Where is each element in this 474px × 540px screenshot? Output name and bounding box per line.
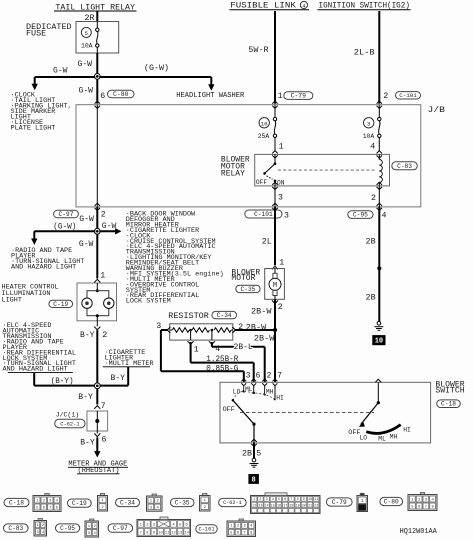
svg-text:16: 16 bbox=[277, 504, 281, 508]
svg-text:C-19: C-19 bbox=[72, 500, 87, 507]
svg-text:7: 7 bbox=[425, 505, 427, 509]
svg-text:C-80: C-80 bbox=[113, 91, 129, 98]
svg-text:SWITCH: SWITCH bbox=[435, 387, 464, 396]
connector C-95 pin 4 label bbox=[348, 211, 387, 221]
svg-text:7: 7 bbox=[243, 531, 245, 535]
svg-text:3: 3 bbox=[284, 211, 289, 220]
svg-text:12: 12 bbox=[252, 504, 256, 508]
load list cigarette lighter multi meter bbox=[103, 349, 154, 368]
svg-text:5: 5 bbox=[85, 31, 88, 37]
blower motor relay box bbox=[221, 154, 390, 186]
connector pinout C-95 bbox=[56, 519, 99, 537]
svg-text:22: 22 bbox=[314, 504, 318, 508]
svg-text:IGNITION SWITCH(IG2): IGNITION SWITCH(IG2) bbox=[319, 1, 410, 11]
svg-text:8: 8 bbox=[252, 476, 256, 484]
svg-text:12: 12 bbox=[171, 532, 175, 536]
svg-text:MOTOR: MOTOR bbox=[231, 274, 255, 283]
relay mechanical link dashed bbox=[278, 169, 375, 171]
svg-text:C-101: C-101 bbox=[199, 527, 215, 533]
svg-text:2: 2 bbox=[278, 303, 283, 312]
svg-text:7: 7 bbox=[290, 498, 292, 502]
J/B bottom edge connector arrows bbox=[95, 203, 382, 210]
svg-text:2: 2 bbox=[102, 331, 107, 340]
svg-text:C-101: C-101 bbox=[399, 92, 417, 99]
svg-text:7: 7 bbox=[49, 506, 51, 510]
svg-text:C-97: C-97 bbox=[113, 525, 128, 532]
svg-text:B-Y: B-Y bbox=[78, 393, 93, 402]
svg-text:PLATE LIGHT: PLATE LIGHT bbox=[11, 124, 56, 132]
J/B top edge connector arrows bbox=[95, 101, 382, 108]
svg-text:MH: MH bbox=[266, 389, 274, 396]
svg-text:9: 9 bbox=[303, 498, 305, 502]
svg-text:13: 13 bbox=[258, 504, 262, 508]
svg-text:3: 3 bbox=[278, 194, 283, 203]
joint connector J/C(1) C-62-1 bbox=[55, 411, 108, 431]
svg-text:5: 5 bbox=[278, 498, 280, 502]
svg-text:2L: 2L bbox=[262, 238, 272, 247]
svg-text:HEADLIGHT WASHER: HEADLIGHT WASHER bbox=[176, 92, 245, 100]
svg-text:16: 16 bbox=[261, 120, 268, 127]
svg-text:2: 2 bbox=[101, 211, 106, 220]
svg-text:1: 1 bbox=[279, 143, 284, 152]
wire G-W node B to heater pin 1 bbox=[79, 234, 105, 280]
blower motor M symbol bbox=[269, 269, 281, 300]
svg-text:2: 2 bbox=[267, 372, 272, 381]
resistor pin 3 wire 0.85B-G bbox=[156, 322, 244, 382]
svg-text:C-101: C-101 bbox=[254, 211, 273, 218]
svg-text:25A: 25A bbox=[258, 133, 270, 140]
svg-text:18: 18 bbox=[289, 504, 293, 508]
load list back door defogger etc bbox=[126, 211, 224, 306]
node C splice B-Y bbox=[94, 383, 100, 389]
wire B-Y from meter list to node C bbox=[99, 367, 128, 386]
svg-text:1.25B-R: 1.25B-R bbox=[206, 355, 238, 364]
svg-text:3: 3 bbox=[246, 372, 251, 381]
svg-text:ON: ON bbox=[277, 179, 285, 186]
fuse 16 25A in J/B bbox=[258, 105, 284, 152]
svg-text:8: 8 bbox=[146, 532, 148, 536]
switch contact arc dashed bbox=[233, 391, 275, 400]
svg-text:(B-Y): (B-Y) bbox=[51, 376, 74, 386]
svg-text:14: 14 bbox=[265, 504, 269, 508]
svg-text:2: 2 bbox=[383, 92, 388, 101]
blower motor box C-35 bbox=[231, 269, 284, 300]
svg-text:1: 1 bbox=[278, 92, 283, 101]
wire 2L-B ignition switch to J/B pin 2 bbox=[354, 11, 380, 104]
svg-text:20: 20 bbox=[302, 504, 306, 508]
svg-text:0.85B-G: 0.85B-G bbox=[206, 364, 238, 373]
svg-text:(G-W): (G-W) bbox=[53, 222, 76, 232]
svg-text:C-83: C-83 bbox=[397, 163, 412, 170]
svg-text:LIGHT: LIGHT bbox=[2, 296, 22, 304]
wire inside J/B left bbox=[96, 105, 98, 207]
connector pinout C-101 bbox=[196, 519, 256, 537]
svg-text:C-79: C-79 bbox=[332, 499, 347, 506]
wire branch left (G-W) radio turn-signal bbox=[31, 222, 95, 245]
svg-text:4: 4 bbox=[272, 498, 274, 502]
svg-text:ML: ML bbox=[378, 436, 386, 443]
svg-text:LO: LO bbox=[360, 435, 368, 442]
wire 5W-R fusible link to J/B pin 1 bbox=[248, 11, 275, 104]
svg-text:6: 6 bbox=[102, 435, 107, 444]
connector C-101 pin 3 label bbox=[245, 210, 289, 220]
connector pinout C-34 bbox=[116, 494, 163, 511]
svg-text:10: 10 bbox=[158, 532, 162, 536]
svg-text:RELAY: RELAY bbox=[221, 169, 245, 178]
wire branch right (G-W) to headlight washer bbox=[99, 63, 214, 91]
svg-text:1: 1 bbox=[279, 259, 284, 268]
svg-text:2B: 2B bbox=[366, 238, 376, 247]
svg-text:OFF: OFF bbox=[256, 179, 267, 186]
svg-text:1: 1 bbox=[253, 498, 255, 502]
resistor pin 4 wire 2B-L bbox=[209, 330, 265, 382]
svg-text:2B-W: 2B-W bbox=[246, 324, 267, 333]
svg-text:C-35: C-35 bbox=[241, 286, 256, 293]
svg-text:C-35: C-35 bbox=[175, 500, 190, 507]
wire 2L J/B to blower motor pin 1 bbox=[262, 207, 284, 270]
svg-text:C-34: C-34 bbox=[217, 312, 232, 319]
fuse 5 10A bbox=[81, 22, 99, 54]
svg-text:5W-R: 5W-R bbox=[248, 46, 268, 55]
wire G-W to node A bbox=[78, 53, 98, 74]
blower switch box C-18 bbox=[220, 381, 465, 443]
wire 2B-W junction to switch pin 7 bbox=[274, 330, 276, 382]
svg-text:LOCK SYSTEM: LOCK SYSTEM bbox=[126, 298, 171, 306]
switch arm OFF and wiper bbox=[223, 399, 256, 443]
node B splice G-W bbox=[94, 228, 100, 234]
net title TAIL LIGHT RELAY bbox=[54, 3, 137, 12]
svg-text:J/C(1): J/C(1) bbox=[56, 412, 79, 420]
ground 8 bbox=[249, 458, 259, 484]
svg-text:21: 21 bbox=[308, 504, 312, 508]
dedicated fuse box bbox=[26, 22, 119, 54]
svg-text:G-W: G-W bbox=[79, 240, 94, 249]
connector pinout C-83 bbox=[4, 519, 47, 537]
net title FUSIBLE LINK 4 bbox=[230, 1, 310, 10]
svg-text:C-18: C-18 bbox=[441, 401, 456, 408]
svg-text:2B-W: 2B-W bbox=[251, 307, 272, 316]
switch knob unit right bbox=[348, 379, 411, 442]
load headlight washer bbox=[176, 92, 245, 100]
fuse 3 10A in J/B bbox=[363, 105, 381, 152]
svg-text:LO: LO bbox=[233, 388, 241, 395]
svg-text:C-95: C-95 bbox=[353, 212, 368, 219]
connector pinout C-19 bbox=[68, 494, 108, 512]
svg-text:19: 19 bbox=[296, 504, 300, 508]
svg-text:9: 9 bbox=[153, 532, 155, 536]
svg-text:4: 4 bbox=[382, 212, 387, 221]
svg-text:13: 13 bbox=[178, 532, 182, 536]
relay contact switch OFF/ON bbox=[256, 151, 285, 207]
svg-text:10: 10 bbox=[375, 338, 383, 346]
connector pinout C-97 bbox=[108, 517, 191, 537]
wire G-W J/B to node B bbox=[79, 207, 97, 229]
svg-text:2B: 2B bbox=[242, 450, 252, 459]
svg-text:2B: 2B bbox=[366, 294, 376, 303]
svg-text:C-62-1: C-62-1 bbox=[223, 500, 242, 506]
svg-text:10A: 10A bbox=[363, 133, 375, 140]
svg-text:6: 6 bbox=[256, 372, 261, 381]
svg-text:C-95: C-95 bbox=[60, 525, 75, 532]
wire 2R from tail light relay bbox=[85, 11, 98, 23]
relay coil bbox=[371, 151, 382, 207]
svg-text:(G-W): (G-W) bbox=[144, 63, 169, 73]
svg-text:C-19: C-19 bbox=[53, 301, 68, 308]
svg-text:J/B: J/B bbox=[428, 105, 446, 115]
wire B-Y heater pin 2 to node C bbox=[80, 330, 107, 384]
wire (B-Y) from lights list to node C bbox=[34, 373, 95, 386]
wire B-Y node C to J/C pin 7 bbox=[78, 389, 105, 411]
svg-text:B-Y: B-Y bbox=[111, 374, 126, 383]
connector pinout C-18 bbox=[4, 494, 61, 512]
wire 2B-W motor pin 2 to junction bbox=[251, 299, 283, 330]
svg-text:G-W: G-W bbox=[53, 67, 68, 76]
svg-text:4: 4 bbox=[370, 143, 375, 152]
junction block J/B bbox=[76, 105, 445, 207]
svg-text:11: 11 bbox=[165, 532, 169, 536]
svg-text:C-83: C-83 bbox=[8, 525, 23, 532]
svg-text:7: 7 bbox=[140, 532, 142, 536]
svg-text:2B-W: 2B-W bbox=[254, 335, 275, 344]
svg-text:OFF: OFF bbox=[223, 406, 235, 414]
svg-text:14: 14 bbox=[184, 532, 188, 536]
svg-text:G-W: G-W bbox=[102, 222, 117, 231]
svg-text:HI: HI bbox=[403, 427, 411, 434]
svg-text:3: 3 bbox=[367, 120, 371, 127]
load meter and gage rheostat bbox=[68, 461, 128, 476]
svg-text:G-W: G-W bbox=[78, 60, 93, 69]
svg-text:6: 6 bbox=[100, 92, 105, 101]
ground 10 bbox=[373, 322, 385, 346]
connector pinout C-35 bbox=[170, 494, 210, 512]
switch contacts LO ML MH HI bbox=[233, 379, 284, 402]
junction 2B-W splice bbox=[254, 328, 277, 344]
svg-text:2: 2 bbox=[259, 498, 261, 502]
svg-text:10: 10 bbox=[308, 498, 312, 502]
wire B-Y J/C pin 6 to meter and gage bbox=[80, 431, 106, 458]
node A splice G-W bbox=[94, 74, 100, 80]
svg-text:2L-B: 2L-B bbox=[354, 48, 375, 57]
switch pin labels 3 6 2 7 bbox=[246, 372, 283, 381]
svg-text:B-Y: B-Y bbox=[80, 331, 95, 340]
svg-text:2B-L: 2B-L bbox=[234, 343, 253, 352]
wire G-W node A to J/B pin 6 bbox=[79, 79, 98, 104]
svg-text:15: 15 bbox=[271, 504, 275, 508]
svg-text:6: 6 bbox=[284, 498, 286, 502]
svg-text:8: 8 bbox=[297, 498, 299, 502]
switch pin 5 wire 2B to ground 8 bbox=[242, 439, 261, 458]
connector C-97 pin 2 label bbox=[54, 210, 106, 219]
connector pinout C-79 bbox=[326, 493, 367, 511]
svg-text:RESISTOR: RESISTOR bbox=[168, 312, 209, 321]
connector pinout C-62-1 bbox=[219, 493, 320, 514]
svg-text:C-34: C-34 bbox=[120, 500, 135, 507]
svg-text:10A: 10A bbox=[81, 43, 93, 50]
svg-text:3: 3 bbox=[266, 498, 268, 502]
connector C-101 pin 2 label bbox=[383, 92, 420, 102]
switch mechanical link dashed bbox=[240, 412, 374, 414]
svg-text:7: 7 bbox=[101, 402, 106, 411]
svg-text:G-W: G-W bbox=[79, 87, 94, 96]
resistor pin 2 wire 2B-W bbox=[232, 323, 275, 333]
svg-text:17: 17 bbox=[283, 504, 287, 508]
load list clock tail parking lights bbox=[11, 92, 72, 133]
connector pinout C-80 bbox=[380, 493, 437, 511]
svg-text:C-97: C-97 bbox=[59, 211, 74, 218]
svg-text:HI: HI bbox=[276, 395, 284, 402]
resistor elements bbox=[170, 328, 233, 333]
svg-text:4: 4 bbox=[302, 3, 305, 9]
wire branch right G-W to systems list bbox=[99, 222, 121, 235]
illumination bulbs L1 L2 bbox=[82, 279, 114, 330]
svg-text:C-62-1: C-62-1 bbox=[60, 421, 79, 427]
svg-text:11: 11 bbox=[314, 498, 318, 502]
resistor pin 1 wire 1.25B-R bbox=[188, 330, 254, 382]
svg-text:C-79: C-79 bbox=[291, 93, 307, 100]
svg-text:G-W: G-W bbox=[79, 215, 94, 224]
svg-text:1: 1 bbox=[194, 346, 199, 355]
svg-text:1: 1 bbox=[100, 272, 105, 281]
heater control illumination light box C-19 bbox=[2, 283, 117, 321]
connector C-79 pin 1 label bbox=[278, 92, 313, 101]
connector C-83 label bbox=[392, 162, 418, 170]
svg-text:MH: MH bbox=[390, 433, 398, 440]
resistor C-34 box bbox=[168, 311, 236, 340]
wire branch left G-W to parking lights bbox=[32, 67, 96, 91]
svg-text:M: M bbox=[273, 282, 277, 290]
connector C-80 pin 6 label bbox=[100, 90, 134, 101]
svg-text:FUSE: FUSE bbox=[26, 30, 46, 39]
svg-text:7: 7 bbox=[277, 372, 282, 381]
svg-text:3: 3 bbox=[156, 322, 161, 331]
load list radio and turn-signal bbox=[11, 247, 84, 271]
svg-text:C-18: C-18 bbox=[9, 500, 24, 507]
load list elc radio rear-diff turn-signal bbox=[3, 322, 76, 374]
drawing number HQ12W01AA bbox=[400, 528, 438, 536]
svg-text:AND HAZARD LIGHT: AND HAZARD LIGHT bbox=[11, 263, 76, 271]
svg-text:B-Y: B-Y bbox=[80, 438, 95, 447]
svg-text:C-80: C-80 bbox=[384, 499, 399, 506]
svg-text:HQ12W01AA: HQ12W01AA bbox=[400, 528, 438, 536]
svg-text:5: 5 bbox=[256, 450, 261, 459]
net title IGNITION SWITCH(IG2) bbox=[318, 1, 411, 11]
connector C-95 wire 2B to ground 10 bbox=[366, 207, 382, 322]
svg-text:2: 2 bbox=[371, 194, 376, 203]
